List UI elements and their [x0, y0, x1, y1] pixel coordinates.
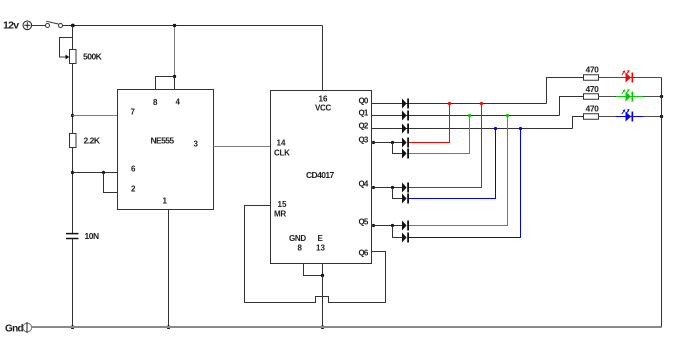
wire blue from D7 to blue bus [409, 129, 496, 199]
junction NE555 pin8/pin4 tie [173, 75, 176, 78]
junction Q3 branch [391, 141, 394, 144]
junction GND/E tie [321, 274, 324, 277]
svg-text:Q5: Q5 [359, 218, 369, 227]
wire Q3 output stub [372, 142, 403, 144]
junction 12v rail / left branch [71, 24, 75, 28]
svg-text:Q4: Q4 [359, 180, 369, 189]
wire R3 to blue LED [599, 116, 617, 118]
junction blue bus 2 [519, 127, 522, 130]
svg-text:500K: 500K [83, 52, 103, 62]
svg-text:2.2K: 2.2K [84, 136, 101, 146]
resistor R2 470 [584, 94, 599, 100]
junction Q4 branch [391, 186, 394, 189]
resistor R1 470 [584, 75, 599, 81]
wire Q4 output stub [372, 187, 403, 189]
wire Q3 lower branch [393, 143, 403, 154]
svg-text:Q0: Q0 [359, 97, 369, 106]
capacitor 10N [65, 234, 80, 239]
wire R2 to green LED [599, 96, 617, 98]
wire NE555 pin 2 tie [104, 173, 118, 193]
diode D1 (Q0) [402, 99, 409, 109]
svg-text:CD4017: CD4017 [306, 170, 334, 180]
wire red LED to right rail [643, 77, 662, 79]
switch S1 [46, 21, 63, 27]
diode D9 (Q5 blue) [402, 233, 409, 243]
wire Q0 output line [372, 103, 547, 105]
junction blue bus [494, 127, 497, 130]
wire red from D4 to red bus [409, 104, 450, 143]
wire red from D6 to red bus [409, 104, 482, 188]
svg-text:6: 6 [131, 165, 136, 174]
LED green LED2 [616, 89, 643, 102]
potentiometer 500K [60, 38, 77, 64]
svg-text:NE555: NE555 [151, 136, 175, 146]
svg-text:470: 470 [586, 65, 600, 75]
counter CD4017 body [271, 91, 372, 264]
wire blue from D9 to blue bus [409, 129, 521, 238]
wire Q2 output line [372, 128, 573, 130]
wire CD4017 E pin 13 stub [322, 264, 324, 276]
svg-text:VCC: VCC [315, 104, 332, 113]
wire CD4017 GND pin 8 stub [304, 264, 323, 276]
svg-text:MR: MR [274, 210, 286, 219]
wire right cathode rail [661, 78, 663, 328]
junction threshold/trigger node [71, 171, 74, 174]
junction GND net / ground rail [321, 325, 325, 329]
diode D6 (Q4 red) [402, 183, 409, 193]
wire NE555 pin 7 [73, 115, 118, 117]
LED red LED1 [616, 70, 643, 83]
wire green from D5 to green bus [409, 116, 470, 154]
svg-text:14: 14 [277, 139, 286, 148]
svg-text:Q6: Q6 [359, 249, 369, 258]
junction Q4 pin node [372, 186, 375, 189]
svg-text:GND: GND [289, 234, 306, 243]
12v positive supply terminal [23, 21, 32, 30]
svg-text:16: 16 [319, 95, 328, 104]
LED blue LED3 [616, 109, 643, 122]
junction green bus [468, 114, 471, 117]
junction pin6/pin2 tie [102, 171, 105, 174]
wire NE555 pin 8 / pin 4 bracket [156, 77, 175, 90]
svg-text:Gnd: Gnd [5, 324, 23, 335]
svg-text:1: 1 [163, 197, 168, 206]
wire NE555 pin 3 to CD4017 CLK [214, 146, 271, 148]
diode D8 (Q5 green) [402, 221, 409, 231]
svg-text:470: 470 [586, 84, 600, 94]
wire Q4 lower branch [393, 188, 403, 199]
diode D3 (Q2) [402, 124, 409, 134]
wire green from D8 to green bus [409, 116, 508, 226]
wire left vertical branch (12v to ground) [72, 26, 74, 328]
junction green bus 2 [506, 114, 509, 117]
wire green LED to right rail [643, 96, 662, 98]
svg-text:Q2: Q2 [359, 122, 369, 131]
wire NE555 pin 1 to ground [168, 210, 170, 328]
wire R1 to red LED [599, 77, 617, 79]
svg-text:Q1: Q1 [359, 109, 369, 118]
svg-text:13: 13 [316, 244, 325, 253]
wire green bus riser to LED row 2 [560, 97, 584, 116]
svg-text:4: 4 [176, 98, 181, 107]
resistor R3 470 [584, 114, 599, 120]
svg-text:2: 2 [131, 185, 136, 194]
wire ground rail [32, 326, 662, 328]
svg-text:8: 8 [298, 244, 303, 253]
svg-text:8: 8 [153, 98, 158, 107]
wire Q5 lower branch [393, 226, 403, 238]
wire red bus riser to LED row 1 [547, 78, 584, 104]
wire CD4017 VCC riser [322, 26, 324, 91]
svg-text:12v: 12v [3, 20, 19, 32]
wire blue bus riser to LED row 3 [573, 117, 584, 129]
junction red bus [448, 102, 451, 105]
junction Q5 pin node [372, 224, 375, 227]
diode D2 (Q1) [402, 111, 409, 121]
wire NE555 VCC riser [174, 26, 176, 77]
resistor 2.2K [70, 134, 77, 148]
ground terminal [23, 322, 32, 333]
junction Q5 branch [391, 224, 394, 227]
diode D7 (Q4 blue) [402, 194, 409, 204]
wire GND/E to ground rail [322, 276, 324, 328]
junction red bus 2 [480, 102, 483, 105]
svg-text:3: 3 [194, 140, 199, 149]
junction top rail / NE555 riser [173, 24, 176, 27]
diode D4 (Q3 red) [402, 138, 409, 148]
junction Q3 pin node [372, 141, 375, 144]
svg-text:10N: 10N [85, 231, 99, 241]
junction green row / right rail [660, 95, 663, 98]
junction blue row / right rail [660, 115, 663, 118]
op-amp timer NE555 body [118, 90, 214, 210]
diode D5 (Q3 green) [402, 149, 409, 159]
svg-text:E: E [318, 234, 324, 243]
wire MR reset loop from Q6 [245, 206, 386, 303]
wire Q5 output stub [372, 225, 403, 227]
junction left branch / ground rail [71, 325, 75, 329]
svg-text:15: 15 [278, 200, 287, 209]
wire NE555 pin 6 [73, 172, 118, 174]
wire blue LED to right rail [643, 116, 662, 118]
svg-text:470: 470 [586, 104, 600, 114]
svg-text:Q3: Q3 [359, 136, 369, 145]
svg-text:CLK: CLK [274, 149, 290, 158]
wire 12v top rail [63, 25, 323, 27]
wire Q1 output line [372, 115, 560, 117]
wire 12v terminal to switch [31, 25, 46, 27]
junction pin7 node [71, 114, 74, 117]
junction pin1 / ground rail [167, 325, 171, 329]
svg-text:7: 7 [131, 108, 136, 117]
